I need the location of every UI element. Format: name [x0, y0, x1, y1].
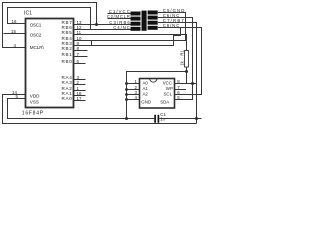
svg-text:OSC2: OSC2 — [30, 33, 42, 38]
svg-text:OSC1: OSC1 — [30, 22, 42, 27]
svg-text:17: 17 — [77, 96, 82, 101]
svg-text:16: 16 — [12, 19, 17, 24]
svg-text:RB5: RB5 — [62, 30, 73, 35]
svg-text:15: 15 — [11, 29, 16, 34]
svg-text:SDA: SDA — [160, 100, 169, 105]
svg-text:R1: R1 — [179, 50, 184, 56]
svg-text:RA3: RA3 — [62, 80, 73, 85]
svg-text:SCL: SCL — [164, 91, 173, 96]
svg-text:RB0: RB0 — [62, 59, 73, 64]
svg-text:VDD: VDD — [30, 93, 40, 98]
svg-text:C2/MCLR: C2/MCLR — [107, 14, 130, 19]
svg-text:16F84P: 16F84P — [22, 110, 44, 116]
svg-text:VCC: VCC — [163, 80, 172, 85]
svg-text:A1: A1 — [143, 86, 149, 91]
svg-text:1n: 1n — [160, 116, 165, 121]
svg-text:A2: A2 — [143, 91, 149, 96]
svg-text:C8/NC: C8/NC — [163, 23, 180, 28]
svg-text:GND: GND — [141, 100, 151, 105]
svg-text:RB1: RB1 — [62, 52, 73, 57]
svg-text:RA0: RA0 — [62, 96, 73, 101]
svg-text:VSS: VSS — [30, 99, 39, 104]
svg-text:11: 11 — [77, 30, 82, 35]
svg-text:IC1: IC1 — [24, 11, 32, 17]
svg-text:MCLR\: MCLR\ — [30, 45, 45, 50]
svg-text:RB2: RB2 — [62, 46, 73, 51]
svg-text:WP: WP — [166, 86, 173, 91]
svg-text:A0: A0 — [143, 80, 149, 85]
svg-text:C4/NC: C4/NC — [113, 25, 130, 30]
